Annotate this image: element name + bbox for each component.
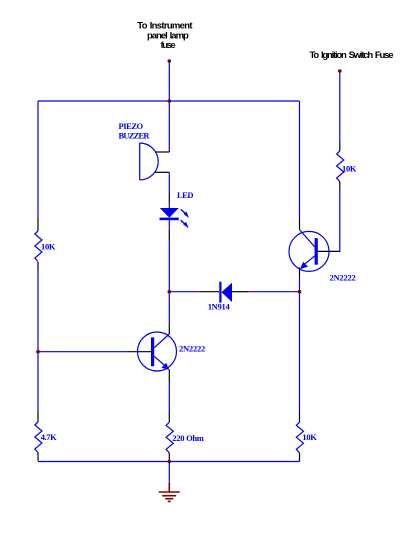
svg-text:2N2222: 2N2222: [330, 272, 356, 282]
svg-text:LED: LED: [177, 190, 193, 200]
svg-text:2N2222: 2N2222: [179, 343, 205, 353]
svg-text:fuse: fuse: [161, 40, 176, 51]
svg-text:10K: 10K: [302, 432, 317, 442]
svg-text:4.7K: 4.7K: [41, 432, 57, 442]
svg-text:220 Ohm: 220 Ohm: [172, 433, 203, 443]
svg-text:10K: 10K: [342, 164, 357, 174]
svg-text:1N914: 1N914: [208, 302, 231, 312]
svg-text:BUZZER: BUZZER: [119, 130, 151, 140]
svg-text:PIEZO: PIEZO: [119, 121, 144, 131]
svg-text:10K: 10K: [41, 242, 56, 252]
svg-text:To Ignition Switch Fuse: To Ignition Switch Fuse: [310, 50, 394, 61]
